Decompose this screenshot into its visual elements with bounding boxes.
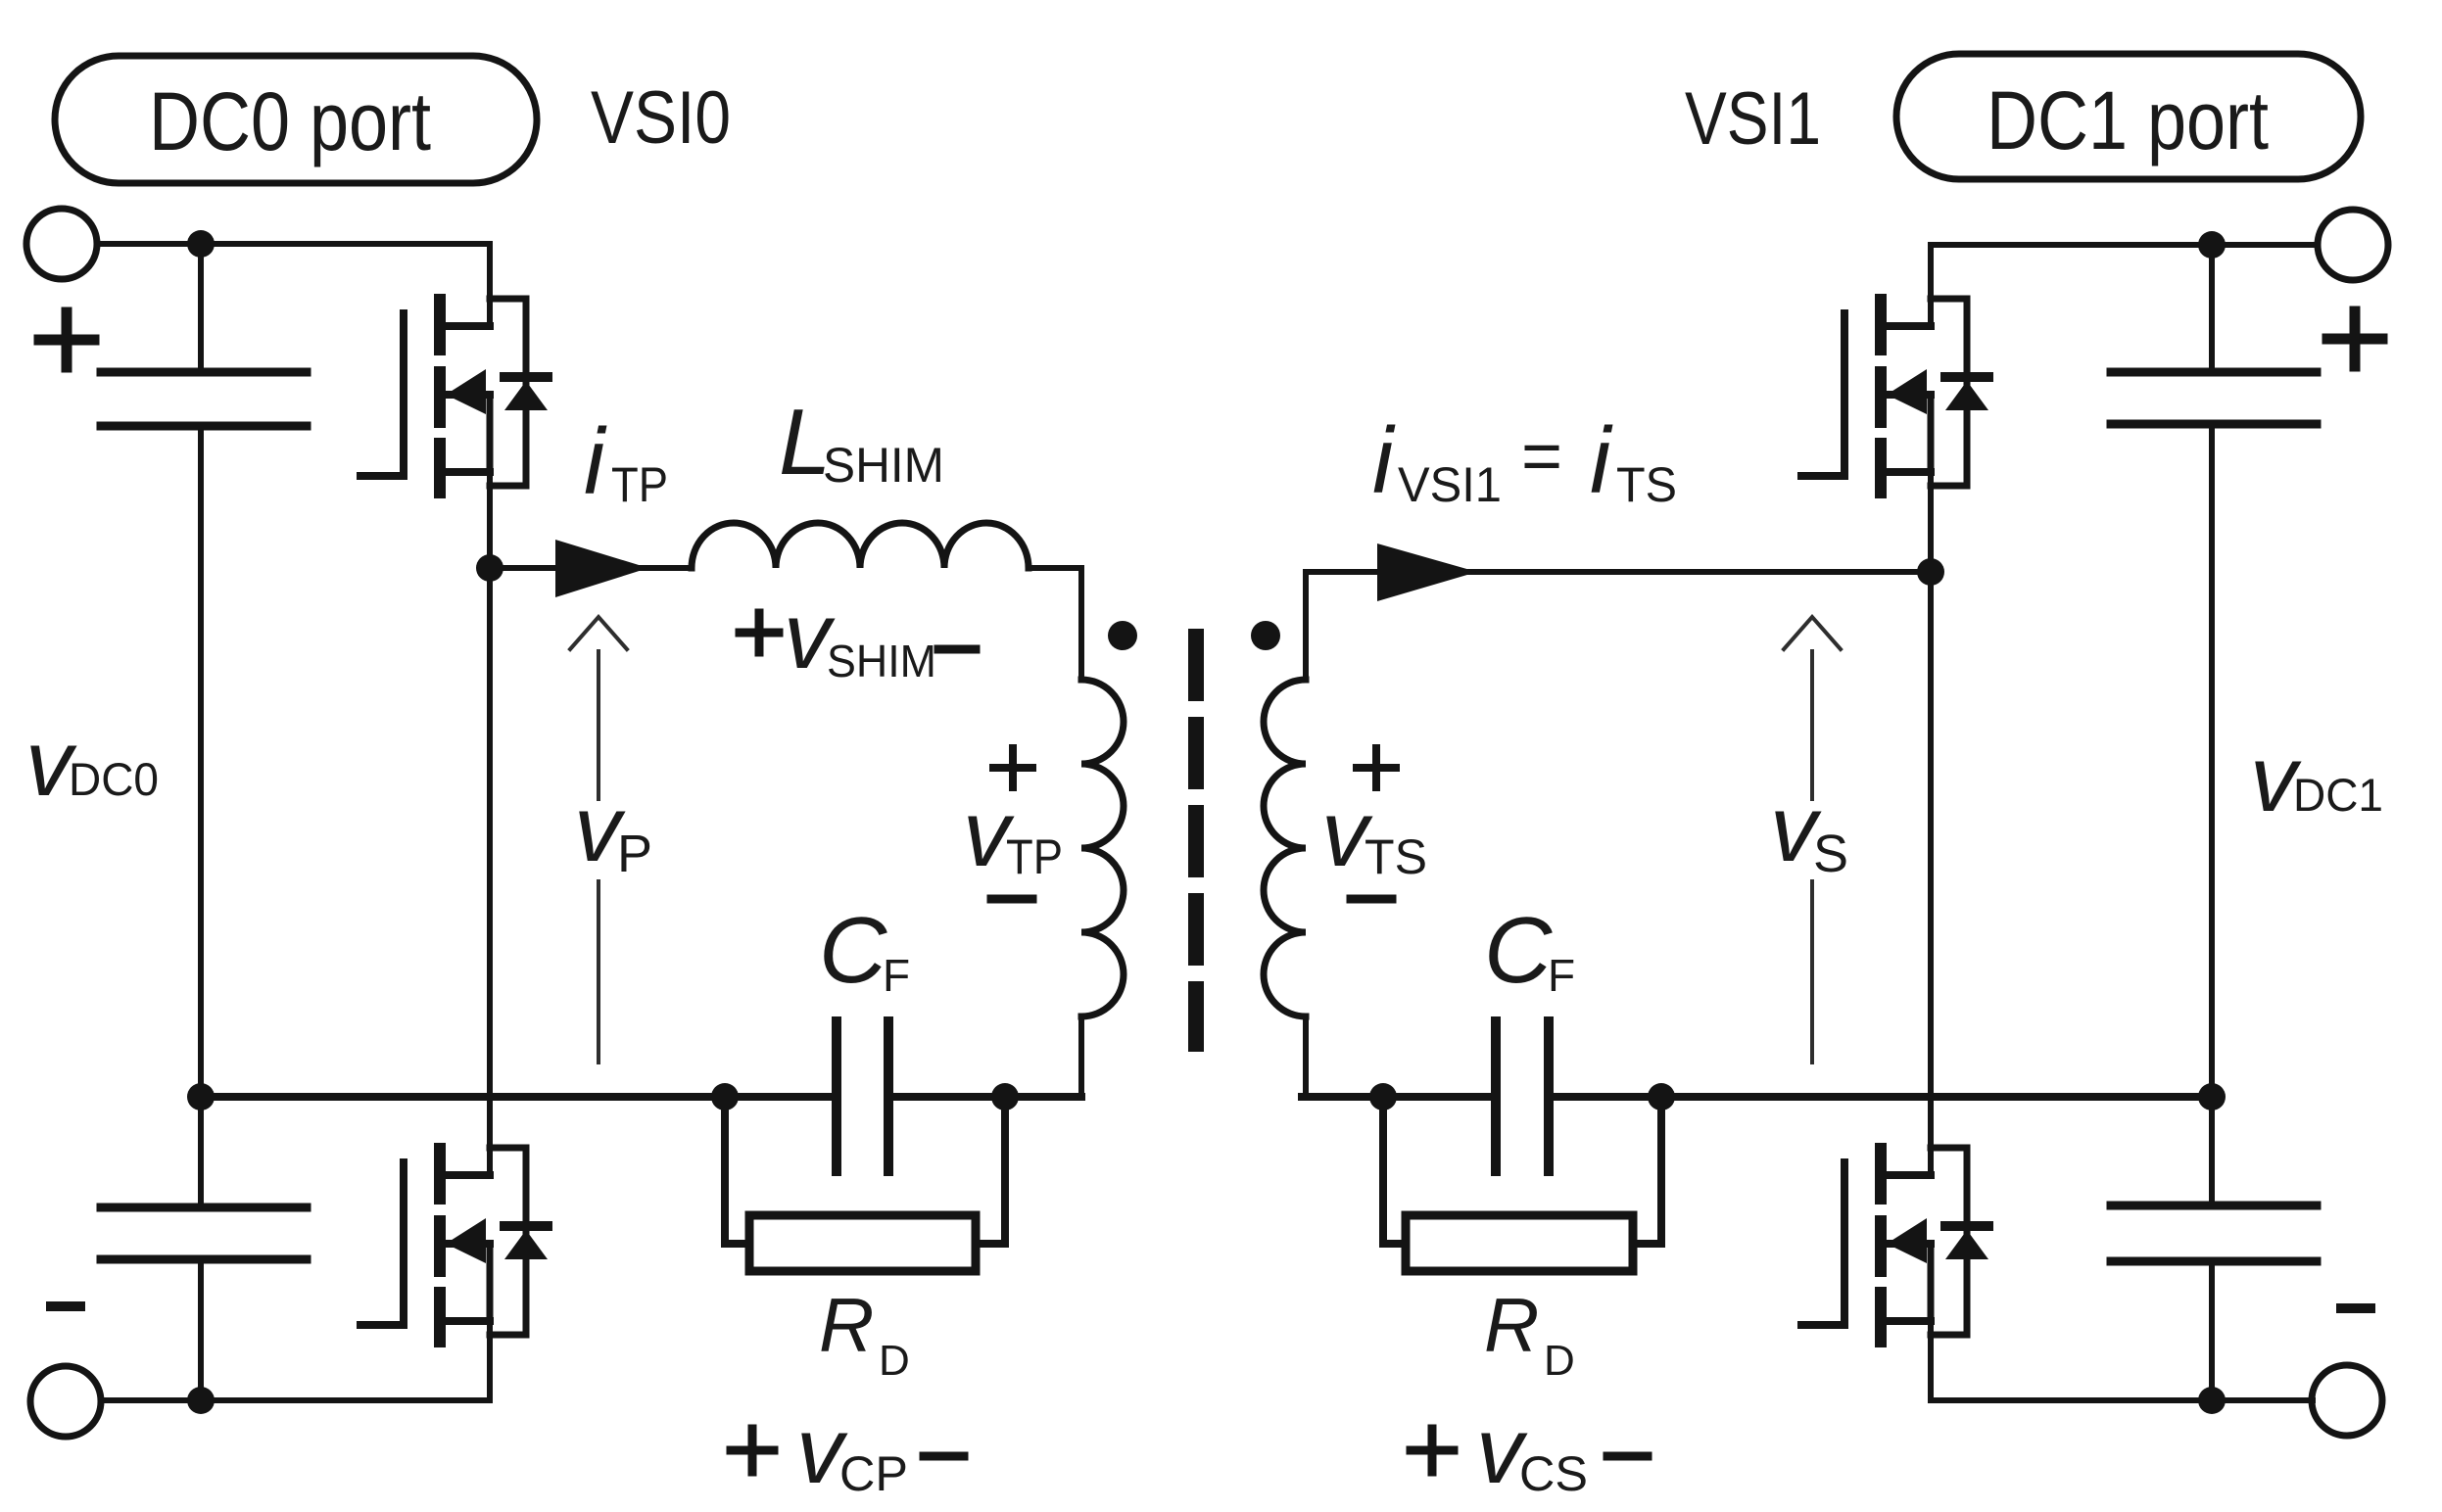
- capacitor CDC0 bottom: [101, 1207, 307, 1259]
- transistor Q1 (VSI0 high side MOSFET with body diode): [360, 294, 548, 498]
- junction CF-S left: [1369, 1083, 1397, 1110]
- svg-text:VSI1: VSI1: [1685, 77, 1821, 161]
- arrow iTP current direction: [555, 540, 648, 597]
- minus sign DC0: [51, 1301, 80, 1311]
- resistor RD secondary: [1383, 1097, 1661, 1271]
- terminal DC0 minus: [30, 1366, 101, 1437]
- label vTP with polarity: [963, 781, 1063, 886]
- svg-text:TS: TS: [1616, 457, 1677, 512]
- svg-text:i: i: [1590, 408, 1613, 513]
- label +vCP-: [796, 1398, 908, 1503]
- svg-text:CS: CS: [1519, 1446, 1588, 1501]
- transformer T1 secondary winding: [1264, 680, 1306, 1016]
- svg-text:F: F: [883, 950, 910, 1001]
- label CF right: [1484, 898, 1575, 1003]
- svg-text:P: P: [617, 825, 652, 883]
- wire bus left segment a: [201, 1093, 837, 1101]
- plus sign DC0: [39, 312, 94, 367]
- label vP: [574, 777, 652, 883]
- label vS: [1770, 777, 1848, 883]
- svg-text:D: D: [879, 1337, 910, 1385]
- wire Q3 drain: [1928, 245, 1934, 326]
- wire bottom rail right: [1931, 1397, 2313, 1403]
- wire DC0 cap to bottom rail: [198, 1261, 204, 1400]
- wire DC1 cap middle leg: [2209, 426, 2215, 1097]
- svg-text:i: i: [1372, 408, 1396, 513]
- wire DC0 cap lower leg: [198, 1097, 204, 1205]
- wire DC1 cap upper leg: [2209, 245, 2215, 370]
- capacitor CF primary: [837, 1021, 888, 1171]
- wire DC0 cap middle leg: [198, 428, 204, 1097]
- capacitor CDC1 bottom: [2111, 1205, 2317, 1261]
- wire node A to inductor: [490, 565, 692, 571]
- arrow iTS current direction: [1377, 543, 1477, 601]
- junction CF-P left: [711, 1083, 739, 1110]
- resistor RD primary: [725, 1097, 1005, 1271]
- svg-text:VSI1: VSI1: [1398, 457, 1502, 512]
- svg-text:C: C: [1484, 898, 1553, 1003]
- wire top rail left: [97, 241, 490, 247]
- label iTP: [584, 409, 668, 514]
- wire top rail right: [1931, 242, 2318, 248]
- label RD left: [819, 1282, 910, 1385]
- wire primary bottom: [1078, 1016, 1084, 1097]
- label CF left: [819, 898, 910, 1003]
- transformer primary polarity dot: [1108, 621, 1137, 650]
- svg-text:CP: CP: [839, 1446, 908, 1501]
- svg-text:DC1 port: DC1 port: [1987, 74, 2269, 166]
- inductor LSHIM: [692, 523, 1029, 568]
- DC0 port label: [55, 56, 537, 183]
- junction mid-right: [2198, 1083, 2226, 1110]
- label +vSHIM-: [784, 584, 936, 688]
- svg-text:DC0 port: DC0 port: [149, 75, 431, 167]
- transistor Q2 (VSI0 low side MOSFET with body diode): [360, 1143, 548, 1347]
- wire bus left segment b: [888, 1093, 1081, 1101]
- svg-text:F: F: [1548, 950, 1575, 1001]
- plus sign DC1: [2327, 311, 2382, 366]
- wire DC0 cap upper leg: [198, 244, 204, 370]
- label RD right: [1484, 1282, 1575, 1385]
- transistor Q4 (VSI1 low side MOSFET with body diode): [1801, 1143, 1988, 1347]
- capacitor CDC1 top: [2111, 372, 2317, 424]
- label +vCS-: [1476, 1398, 1588, 1503]
- wire bus right segment a: [1302, 1093, 1496, 1101]
- terminal DC0 plus: [26, 209, 97, 279]
- wire secondary top to node B: [1306, 572, 1931, 680]
- transistor Q3 (VSI1 high side MOSFET with body diode): [1801, 294, 1988, 498]
- wire DC1 cap to bottom rail: [2209, 1263, 2215, 1400]
- junction CF-P right: [991, 1083, 1019, 1110]
- junction top-left: [187, 230, 215, 258]
- terminal DC1 minus: [2312, 1365, 2382, 1436]
- junction mid-left: [187, 1083, 215, 1110]
- label LSHIM: [779, 390, 944, 495]
- wire Q1 drain: [487, 244, 493, 326]
- svg-text:R: R: [819, 1282, 874, 1368]
- svg-text:S: S: [1813, 825, 1848, 883]
- wire DC1 cap lower leg: [2209, 1097, 2215, 1204]
- wire bus right segment b: [1549, 1093, 2212, 1101]
- svg-text:SHIM: SHIM: [827, 636, 936, 686]
- junction bottom-right: [2198, 1387, 2226, 1414]
- svg-text:VSI0: VSI0: [591, 76, 731, 160]
- svg-text:DC0: DC0: [69, 753, 159, 805]
- svg-text:TS: TS: [1365, 829, 1427, 884]
- wire inductor to transformer primary: [1029, 568, 1081, 680]
- svg-text:=: =: [1521, 417, 1562, 496]
- junction bottom-left: [187, 1387, 215, 1414]
- wire Q4 source to bottom rail: [1928, 1321, 1934, 1400]
- label vDC0: [25, 711, 159, 816]
- minus sign DC1: [2341, 1303, 2370, 1313]
- svg-text:TP: TP: [611, 457, 668, 512]
- transformer core (dashed): [1188, 637, 1204, 1044]
- svg-text:R: R: [1484, 1282, 1539, 1368]
- node B junction: [1917, 558, 1944, 586]
- transformer secondary polarity dot: [1251, 621, 1280, 650]
- svg-text:SHIM: SHIM: [823, 438, 944, 493]
- svg-text:D: D: [1544, 1337, 1575, 1385]
- junction top-right: [2198, 231, 2226, 259]
- svg-text:DC1: DC1: [2293, 769, 2383, 821]
- arrow vS voltage: [1784, 617, 1841, 1063]
- svg-text:TP: TP: [1006, 829, 1063, 884]
- wire secondary bottom: [1303, 1016, 1309, 1097]
- svg-text:i: i: [584, 409, 607, 514]
- wire bottom rail left: [101, 1397, 490, 1403]
- label vTS with polarity: [1321, 781, 1427, 886]
- label vDC1: [2250, 727, 2383, 831]
- arrow vP voltage: [570, 617, 627, 1063]
- svg-text:C: C: [819, 898, 887, 1003]
- wire VSI1 leg midpoint: [1928, 472, 1934, 1175]
- capacitor CDC0 top: [101, 372, 307, 426]
- terminal DC1 plus: [2318, 210, 2388, 280]
- label iVSI1 = iTS: [1372, 408, 1677, 513]
- transformer T1 primary winding: [1081, 680, 1124, 1016]
- node A junction: [476, 554, 503, 582]
- capacitor CF secondary: [1496, 1021, 1549, 1171]
- wire Q2 source to bottom rail: [487, 1321, 493, 1400]
- wire VSI0 leg midpoint: [487, 472, 493, 1175]
- junction CF-S right: [1648, 1083, 1675, 1110]
- DC1 port label: [1896, 54, 2361, 179]
